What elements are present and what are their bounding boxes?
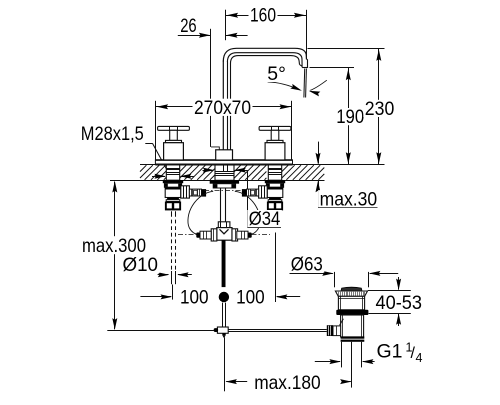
svg-text:160: 160: [250, 4, 276, 26]
svg-text:M28x1,5: M28x1,5: [81, 123, 144, 145]
svg-text:190: 190: [336, 106, 364, 128]
svg-text:26: 26: [180, 15, 197, 37]
svg-text:Ø10: Ø10: [123, 254, 159, 276]
svg-text:Ø34: Ø34: [249, 208, 281, 230]
svg-text:max.180: max.180: [254, 372, 321, 394]
svg-text:G1: G1: [377, 341, 403, 363]
svg-text:270x70: 270x70: [194, 97, 251, 119]
svg-text:5°: 5°: [267, 63, 286, 85]
svg-text:100: 100: [180, 287, 209, 309]
svg-text:40-53: 40-53: [376, 292, 423, 314]
svg-text:max.30: max.30: [320, 188, 378, 210]
svg-text:4: 4: [416, 351, 423, 365]
svg-text:Ø63: Ø63: [291, 254, 323, 276]
svg-text:230: 230: [365, 98, 395, 120]
svg-text:100: 100: [236, 287, 265, 309]
